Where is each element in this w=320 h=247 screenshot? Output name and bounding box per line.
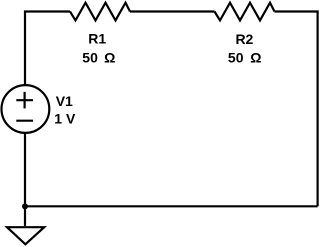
- svg-text:50: 50: [228, 49, 244, 65]
- V1 minus sign: [16, 120, 33, 122]
- ground symbol triangle: [7, 227, 44, 244]
- wire top-left corner to R1 (left vertical + top horizontal): [25, 12, 70, 86]
- wire R2 to top-right corner down right side: [275, 12, 318, 207]
- bottom wire: [25, 205, 318, 207]
- wire R1 to R2: [130, 10, 215, 12]
- svg-text:V1: V1: [56, 93, 73, 109]
- svg-text:R2: R2: [235, 31, 253, 47]
- voltage source V1 circle: [2, 85, 50, 133]
- V1 plus sign: [16, 92, 33, 109]
- svg-text:1 V: 1 V: [54, 111, 76, 127]
- resistor R1: [70, 3, 130, 21]
- svg-text:Ω: Ω: [104, 49, 115, 65]
- wire V1 bottom to junction: [24, 133, 26, 207]
- svg-text:50: 50: [82, 49, 98, 65]
- svg-text:R1: R1: [88, 31, 106, 47]
- svg-text:Ω: Ω: [250, 49, 261, 65]
- ground stub wire: [24, 206, 26, 226]
- resistor R2: [215, 3, 275, 21]
- junction node dot: [22, 203, 28, 209]
